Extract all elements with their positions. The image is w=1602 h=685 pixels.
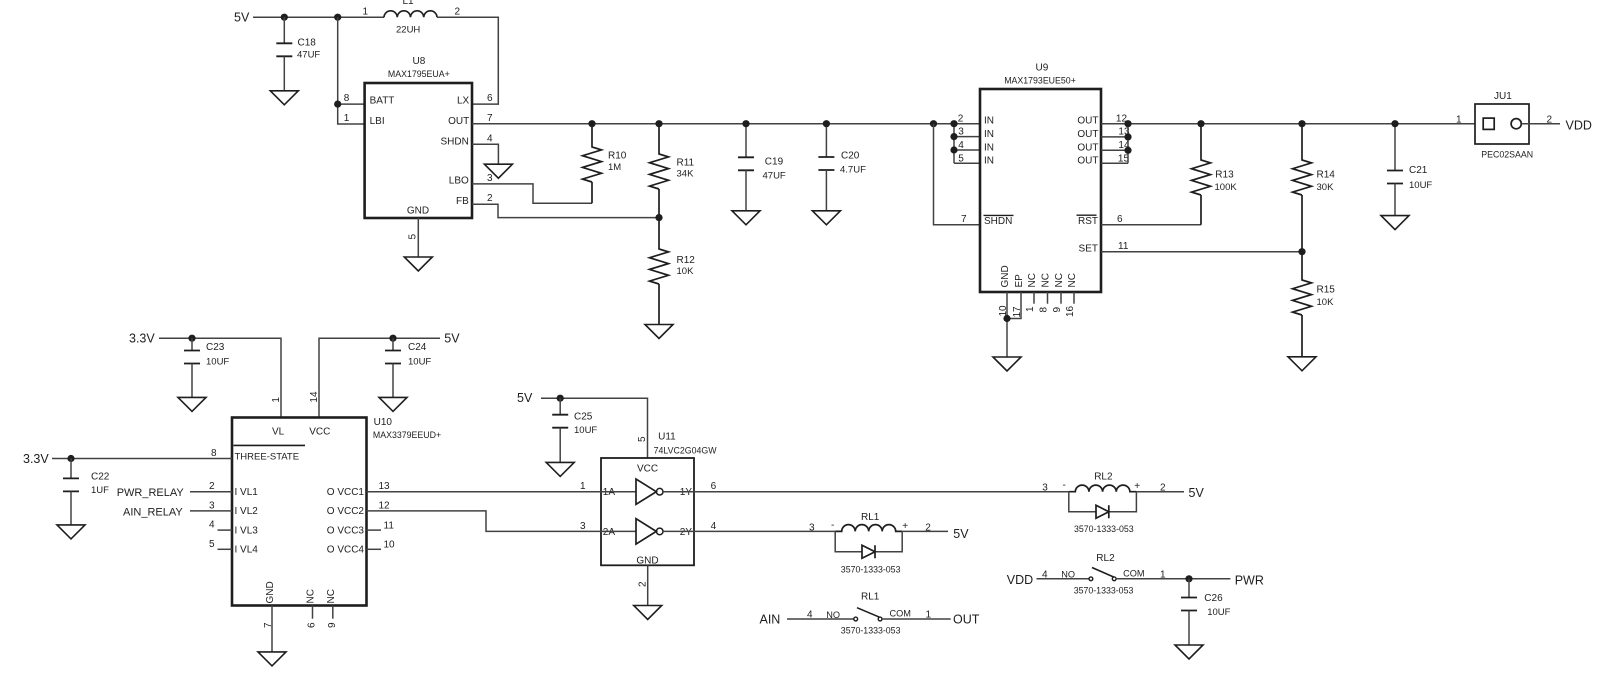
svg-text:8: 8 (1039, 307, 1050, 313)
svg-text:OUT: OUT (1077, 142, 1098, 153)
inverter U11-B bubble (656, 528, 663, 535)
svg-text:8: 8 (344, 93, 350, 104)
svg-text:THREE-STATE: THREE-STATE (235, 452, 300, 463)
svg-text:2: 2 (638, 581, 649, 587)
svg-text:AIN_RELAY: AIN_RELAY (123, 506, 183, 518)
svg-text:NO: NO (826, 610, 840, 620)
svg-text:30K: 30K (1317, 182, 1335, 193)
svg-text:4.7UF: 4.7UF (840, 164, 866, 175)
svg-text:3570-1333-053: 3570-1333-053 (1074, 524, 1134, 534)
svg-text:C24: C24 (408, 342, 427, 353)
svg-text:U11: U11 (658, 431, 676, 442)
svg-text:NC: NC (306, 589, 317, 603)
junction BATT (334, 101, 341, 108)
svg-text:22UH: 22UH (396, 25, 420, 36)
svg-text:7: 7 (961, 214, 967, 225)
wire C19 to ground (745, 170, 747, 211)
wire U8 GND pin 5 (417, 218, 419, 257)
svg-text:IN: IN (984, 156, 994, 167)
svg-text:MAX3379EEUD+: MAX3379EEUD+ (373, 430, 441, 440)
svg-text:10UF: 10UF (574, 425, 597, 436)
svg-text:RST: RST (1078, 216, 1098, 227)
ground (C26) (1175, 645, 1203, 659)
wire VDD to C21 (1394, 124, 1396, 171)
svg-text:JU1: JU1 (1494, 91, 1512, 102)
svg-text:5: 5 (408, 234, 419, 240)
ground (C24) (379, 397, 407, 411)
wire RL1 COM to OUT (882, 618, 951, 620)
svg-text:VDD: VDD (1566, 119, 1592, 133)
svg-text:COM: COM (1123, 569, 1144, 579)
svg-text:6: 6 (711, 481, 717, 492)
junction PWR/C26 (1185, 575, 1192, 582)
wire VDD to RL2 NO contact (1037, 578, 1090, 580)
svg-text:6: 6 (1117, 214, 1123, 225)
svg-text:VCC: VCC (637, 464, 658, 475)
wire PWR to C26 (1188, 579, 1190, 598)
svg-text:2: 2 (958, 113, 964, 124)
svg-text:2Y: 2Y (680, 527, 693, 538)
svg-text:BATT: BATT (370, 95, 395, 106)
wire SHDN to ground (472, 144, 498, 164)
capacitor C25 (552, 415, 568, 428)
ground (C22) (57, 525, 85, 539)
svg-text:VDD: VDD (1007, 573, 1033, 587)
svg-text:5: 5 (637, 436, 648, 442)
svg-text:COM: COM (890, 609, 911, 619)
junction 5V/C25 (557, 395, 564, 402)
junction 5V/BATT (334, 14, 341, 21)
svg-text:U10: U10 (374, 417, 393, 428)
svg-text:+: + (902, 521, 908, 532)
svg-text:R10: R10 (608, 151, 627, 162)
svg-text:1: 1 (580, 481, 586, 492)
wire RL1 coil to diode anode (835, 531, 862, 551)
wire OUT pins ladder vertical (1127, 124, 1129, 164)
wire RST to R13 (1101, 224, 1201, 226)
wire L1 pin2 to U8 LX (437, 17, 498, 104)
wire 5V to C25 (559, 398, 561, 415)
wire C18 to ground (283, 56, 285, 91)
svg-text:5: 5 (209, 539, 215, 550)
ground (U10 GND) (258, 652, 286, 666)
svg-text:+: + (1134, 481, 1140, 492)
svg-text:C26: C26 (1204, 593, 1223, 604)
ground (C25) (546, 462, 574, 476)
svg-text:1: 1 (926, 609, 932, 620)
wire FB to R11/R12 node (472, 204, 659, 217)
wire 3.3V to U10 VL (159, 338, 281, 417)
svg-text:O VCC4: O VCC4 (327, 545, 365, 556)
svg-text:O VCC1: O VCC1 (327, 487, 365, 498)
svg-text:AIN: AIN (760, 612, 781, 626)
junction 3.3V/C22 (67, 455, 74, 462)
inductor L1 (384, 11, 437, 17)
junction VDD/R13 (1197, 120, 1204, 127)
wire 5V to C24 (392, 338, 394, 350)
resistor R14 (1293, 124, 1312, 252)
svg-text:C23: C23 (206, 342, 225, 353)
wire C21 to ground (1394, 184, 1396, 216)
svg-text:47UF: 47UF (763, 170, 786, 181)
wire IN pin5 stub (954, 162, 980, 164)
svg-text:O VCC3: O VCC3 (327, 525, 365, 536)
capacitor C20 (818, 157, 834, 170)
ground (C20) (812, 211, 840, 225)
relay RL2 coil (1069, 485, 1137, 492)
svg-text:1: 1 (1456, 115, 1462, 126)
wire to U9 SHDN pin7 (934, 124, 981, 225)
wire 5V to C18 (283, 17, 285, 43)
svg-text:1UF: 1UF (91, 485, 109, 496)
capacitor C23 (184, 351, 200, 364)
svg-text:13: 13 (379, 481, 391, 492)
capacitor C18 (276, 43, 292, 56)
svg-text:MAX1793EUE50+: MAX1793EUE50+ (1004, 75, 1076, 85)
junction IN2 (950, 120, 957, 127)
svg-text:GND: GND (1000, 265, 1011, 287)
connector JU1 body (1475, 104, 1529, 144)
wire U9 NC pin 16 stub (1073, 292, 1075, 304)
svg-text:U8: U8 (413, 56, 426, 67)
wire RL2 coil to diode cathode (1109, 492, 1137, 512)
wire U9 NC pin 1 stub (1033, 292, 1035, 304)
svg-text:IN: IN (984, 116, 994, 127)
svg-text:3: 3 (809, 522, 815, 533)
svg-text:I VL3: I VL3 (235, 525, 259, 536)
wire OUT pin14 stub (1101, 149, 1128, 151)
wire RL2 COM to PWR (1116, 578, 1230, 580)
svg-text:R13: R13 (1215, 170, 1234, 181)
svg-text:5V: 5V (517, 391, 533, 405)
svg-text:LBI: LBI (370, 116, 385, 127)
ground (U9 GND) (993, 357, 1021, 371)
svg-text:3: 3 (958, 127, 964, 138)
IC U10 MAX3379EEUD+ body (232, 418, 367, 606)
svg-text:2: 2 (455, 7, 461, 18)
svg-text:2: 2 (487, 193, 493, 204)
svg-text:C25: C25 (574, 411, 593, 422)
wire O VCC2 to inverter 2A (367, 511, 637, 532)
svg-text:11: 11 (384, 520, 395, 531)
wire OUT pin13 stub (1101, 136, 1128, 138)
svg-text:4: 4 (1042, 569, 1048, 580)
wire 3.3V to C22 (70, 459, 72, 479)
junction R14/R15/SET (1298, 248, 1305, 255)
svg-text:I VL4: I VL4 (235, 545, 259, 556)
IC U11 74LVC2G04GW body (601, 458, 694, 565)
svg-text:L1: L1 (403, 0, 415, 7)
wire C23 to ground (191, 364, 193, 398)
ground (C18) (270, 91, 298, 105)
svg-text:IN: IN (984, 142, 994, 153)
svg-text:C21: C21 (1409, 165, 1428, 176)
svg-text:4: 4 (209, 520, 215, 531)
wire OUT to C20 (825, 124, 827, 157)
wire O VCC1 to inverter 1A (367, 491, 637, 493)
svg-text:NC: NC (1027, 273, 1038, 287)
svg-text:6: 6 (307, 622, 318, 628)
junction OUT14 (1124, 147, 1131, 154)
svg-text:OUT: OUT (1077, 116, 1098, 127)
wire OUT rail (U8 OUT to U9 IN) (472, 123, 980, 125)
resistor R13 (1192, 124, 1211, 225)
svg-text:10UF: 10UF (408, 356, 431, 367)
svg-text:OUT: OUT (1077, 156, 1098, 167)
junction OUT/C19 (742, 120, 749, 127)
svg-text:SHDN: SHDN (440, 136, 468, 147)
svg-text:1M: 1M (608, 162, 621, 173)
svg-text:7: 7 (263, 622, 274, 628)
svg-text:4: 4 (807, 609, 813, 620)
junction OUT/R10 (588, 120, 595, 127)
svg-text:NC: NC (1067, 273, 1078, 287)
capacitor C19 (738, 157, 754, 170)
wire PWR_RELAY to pin2 (190, 491, 232, 493)
junction IN3 (950, 133, 957, 140)
relay RL1 coil (835, 525, 902, 532)
wire SET to R14/R15 node (1101, 251, 1302, 253)
wire U10 pin4 stub (218, 529, 233, 531)
RL1 NO contact (854, 617, 858, 621)
wire 5V to U11 VCC (541, 398, 648, 458)
wire RL2 coil to 5V (1136, 491, 1184, 493)
junction IN4 (950, 146, 957, 153)
svg-text:C22: C22 (91, 472, 110, 483)
wire U10 NC pin 9 stub (332, 606, 334, 619)
svg-text:SET: SET (1079, 243, 1098, 254)
wire IN pin3 stub (954, 136, 980, 138)
RL2 NO contact (1089, 577, 1093, 581)
svg-text:6: 6 (487, 93, 493, 104)
svg-text:100K: 100K (1215, 182, 1238, 193)
svg-text:3.3V: 3.3V (23, 452, 49, 466)
svg-text:FB: FB (456, 196, 469, 207)
svg-text:5V: 5V (1189, 486, 1205, 500)
wire U10 pin10 stub (367, 548, 382, 550)
capacitor C24 (385, 351, 401, 364)
junction VDD/C21 (1391, 120, 1398, 127)
JU1 square pin 1 (1483, 118, 1494, 129)
svg-text:1Y: 1Y (680, 487, 693, 498)
ground (SHDN) (484, 164, 512, 178)
wire 3.3V to THREE-STATE pin8 (52, 458, 232, 460)
inverter U11-A triangle (636, 479, 656, 504)
svg-text:OUT: OUT (448, 116, 469, 127)
resistor R15 (1293, 252, 1312, 357)
svg-text:VL: VL (272, 426, 285, 437)
svg-text:3570-1333-053: 3570-1333-053 (1074, 585, 1134, 595)
svg-text:10UF: 10UF (206, 356, 229, 367)
wire U10 pin11 stub (367, 529, 382, 531)
wire U10 GND pin 7 (271, 606, 273, 652)
svg-text:1: 1 (1025, 306, 1036, 312)
svg-text:3: 3 (580, 521, 586, 532)
junction OUT/R11 (655, 120, 662, 127)
RL2 flyback diode (1096, 505, 1109, 518)
svg-text:RL1: RL1 (861, 512, 880, 523)
wire U9 NC pin 9 stub (1060, 292, 1062, 304)
svg-text:PEC02SAAN: PEC02SAAN (1481, 150, 1533, 160)
RL2 switch arm (1092, 568, 1114, 578)
wire 1Y to RL2 coil (663, 491, 1069, 493)
svg-text:5V: 5V (444, 331, 460, 345)
svg-text:11: 11 (1118, 241, 1129, 252)
svg-text:MAX1795EUA+: MAX1795EUA+ (388, 69, 450, 79)
svg-text:-: - (1063, 480, 1066, 491)
svg-text:-: - (831, 520, 834, 531)
junction 5V/C18 (281, 14, 288, 21)
svg-text:3: 3 (1042, 483, 1048, 494)
wire AIN to RL1 NO contact (787, 618, 854, 620)
junction 5V/C24 (389, 335, 396, 342)
junction 3.3V/C23 (188, 335, 195, 342)
wire RL1 coil to 5V (902, 530, 948, 532)
ground (U8 GND) (404, 257, 432, 271)
svg-text:LBO: LBO (449, 176, 469, 187)
svg-text:1: 1 (363, 7, 369, 18)
U10 THREE-STATE overline (234, 444, 306, 446)
wire OUT pin15 stub (1101, 162, 1128, 164)
svg-text:5: 5 (958, 153, 964, 164)
svg-text:NC: NC (1041, 273, 1052, 287)
wire C26 to ground (1188, 611, 1190, 646)
svg-text:GND: GND (407, 205, 429, 216)
svg-text:EP: EP (1014, 274, 1025, 288)
svg-text:8: 8 (211, 448, 217, 459)
wire U9 GND pin 10 (1006, 292, 1008, 357)
junction OUT13 (1124, 133, 1131, 140)
wire AIN_RELAY to pin3 (190, 510, 232, 512)
svg-text:7: 7 (487, 113, 493, 124)
svg-text:3: 3 (209, 500, 215, 511)
svg-text:IN: IN (984, 129, 994, 140)
wire C20 to ground (825, 170, 827, 211)
svg-text:5V: 5V (953, 527, 969, 541)
svg-text:10: 10 (384, 540, 396, 551)
svg-text:NO: NO (1061, 570, 1075, 580)
svg-text:4: 4 (487, 134, 493, 145)
svg-text:1: 1 (1160, 569, 1166, 580)
junction OUT/C20 (823, 120, 830, 127)
ground (C19) (732, 211, 760, 225)
svg-text:I VL2: I VL2 (235, 506, 259, 517)
svg-text:VCC: VCC (309, 426, 330, 437)
svg-text:10UF: 10UF (1409, 180, 1432, 191)
wire VDD rail (U9 OUT to JU1) (1101, 123, 1475, 125)
wire 5V rail to L1 (253, 16, 384, 18)
wire BATT pin8 stub (338, 103, 365, 105)
svg-text:R15: R15 (1317, 285, 1336, 296)
svg-text:3570-1333-053: 3570-1333-053 (841, 564, 901, 574)
junction VDD/R14 (1298, 120, 1305, 127)
svg-text:3570-1333-053: 3570-1333-053 (841, 625, 901, 635)
svg-text:I VL1: I VL1 (235, 487, 259, 498)
IC U8 MAX1795EUA+ body (365, 83, 472, 218)
junction OUT/U9-SHDN drop (930, 120, 937, 127)
svg-text:2: 2 (209, 481, 215, 492)
RL1 flyback diode (862, 545, 875, 558)
svg-text:GND: GND (265, 581, 276, 603)
svg-text:10K: 10K (677, 266, 695, 277)
capacitor C26 (1181, 598, 1197, 611)
ground (C23) (178, 397, 206, 411)
wire RL2 coil to diode anode (1069, 492, 1096, 512)
wire JU1 pin2 to VDD (1521, 123, 1560, 125)
svg-text:R14: R14 (1317, 170, 1336, 181)
RL1 switch arm (857, 608, 880, 618)
svg-text:1: 1 (344, 113, 350, 124)
wire C24 to ground (392, 364, 394, 398)
svg-text:5V: 5V (234, 11, 250, 25)
IC U9 MAX1793EUE50+ body (980, 89, 1101, 292)
wire U9 EP pin 17 (1007, 292, 1021, 319)
wire U10 VCC to 5V (319, 338, 440, 417)
wire to U8 LBI pin1 (338, 17, 365, 124)
resistor R11 (650, 124, 669, 218)
svg-text:74LVC2G04GW: 74LVC2G04GW (654, 446, 718, 456)
wire IN pin4 stub (954, 149, 980, 151)
svg-text:NC: NC (1054, 273, 1065, 287)
wire C22 to ground (70, 491, 72, 525)
wire U11 GND pin 2 (647, 565, 649, 605)
JU1 round pin 2 (1511, 119, 1521, 129)
ground (R15) (1288, 357, 1316, 371)
svg-text:R12: R12 (677, 255, 696, 266)
svg-text:C20: C20 (841, 150, 860, 161)
svg-text:4: 4 (711, 521, 717, 532)
wire U9 NC pin 8 stub (1047, 292, 1049, 304)
svg-text:10K: 10K (1317, 297, 1335, 308)
svg-text:RL1: RL1 (861, 592, 880, 603)
junction OUT12 (1124, 120, 1131, 127)
ground (C21) (1381, 216, 1409, 230)
svg-text:PWR_RELAY: PWR_RELAY (117, 487, 185, 499)
wire OUT to C19 (745, 124, 747, 158)
wire RL1 coil to diode cathode (875, 531, 902, 551)
resistor R12 (650, 218, 669, 325)
svg-text:1: 1 (271, 397, 282, 403)
svg-text:RL2: RL2 (1094, 471, 1113, 482)
wire U10 NC pin 6 stub (312, 606, 314, 619)
U9 SHDN overline (984, 214, 1014, 216)
svg-text:4: 4 (958, 140, 964, 151)
svg-text:C19: C19 (765, 157, 784, 168)
wire U10 pin5 stub (218, 548, 233, 550)
svg-text:R11: R11 (677, 157, 695, 168)
capacitor C21 (1387, 171, 1403, 184)
wire LBO to R10 bottom (472, 184, 592, 203)
svg-text:RL2: RL2 (1096, 553, 1115, 564)
inverter U11-A bubble (656, 488, 663, 495)
junction R11/R12/FB (655, 214, 662, 221)
svg-text:O VCC2: O VCC2 (327, 506, 365, 517)
svg-text:3: 3 (487, 173, 493, 184)
svg-text:GND: GND (636, 555, 658, 566)
wire 3.3V to C23 (191, 338, 193, 350)
svg-text:34K: 34K (677, 169, 695, 180)
svg-text:OUT: OUT (1077, 129, 1098, 140)
svg-text:OUT: OUT (953, 613, 980, 627)
svg-text:U9: U9 (1036, 62, 1049, 73)
wire 2Y to RL1 coil (663, 530, 835, 532)
capacitor C22 (63, 478, 79, 491)
svg-text:14: 14 (309, 391, 320, 403)
svg-text:47UF: 47UF (297, 50, 320, 61)
RL2 COM contact (1112, 577, 1116, 581)
svg-text:2A: 2A (603, 527, 616, 538)
resistor R10 (583, 124, 602, 204)
